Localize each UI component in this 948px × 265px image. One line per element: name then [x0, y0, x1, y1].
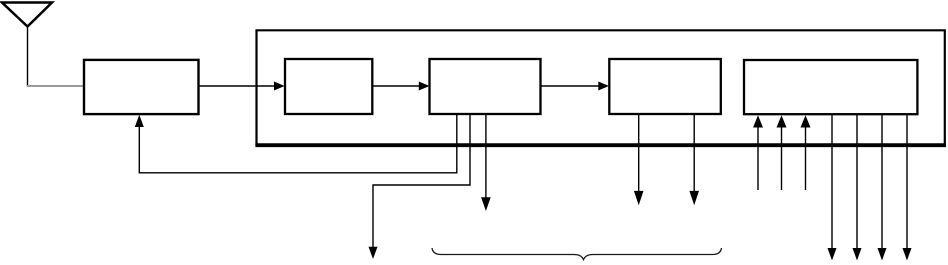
- wire B5 input up arrow 1: [753, 115, 763, 190]
- wire B3 output down-left arrow: [369, 114, 471, 259]
- block B2: [285, 59, 372, 114]
- wire B4 output down arrow 2: [689, 114, 699, 205]
- wire B4 output down arrow 1: [634, 114, 644, 205]
- wire B5 input up arrow 2: [777, 115, 787, 190]
- wire feedback B3 to B1 (AGC): [135, 114, 457, 173]
- block B1 front-end: [84, 60, 199, 114]
- wire antenna feed vertical: [27, 27, 29, 87]
- brace under output group: [432, 248, 722, 260]
- wire B5 output down arrow 4: [903, 114, 912, 261]
- wire B5 input up arrow 3: [801, 115, 811, 190]
- wire B2 to B3 arrow: [372, 82, 429, 91]
- block B5: [744, 60, 917, 114]
- IC boundary U1: [255, 30, 946, 145]
- block B3: [430, 59, 541, 114]
- wire B1 to B2 arrow: [199, 82, 285, 91]
- wire B3 to B4 arrow: [541, 82, 609, 91]
- wire B3 output down arrow: [481, 114, 491, 211]
- block B4: [609, 59, 721, 114]
- antenna ANT1: [2, 3, 52, 27]
- wire B5 output down arrow 1: [828, 114, 837, 261]
- wire B5 output down arrow 2: [853, 114, 862, 261]
- wire antenna to B1 (grey): [27, 85, 84, 87]
- wire B5 output down arrow 3: [878, 114, 887, 261]
